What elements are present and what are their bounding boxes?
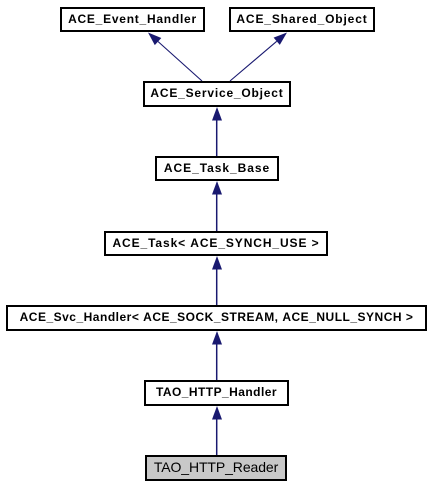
node ACE_Svc_Handler< ACE_SOCK_STREAM, ACE_NULL_SYNCH > <box>6 305 427 331</box>
node ACE_Task_Base <box>155 156 279 181</box>
wire arrow ACE_Service_Object to ACE_Shared_Object <box>230 33 287 82</box>
wire arrow TAO_HTTP_Reader to TAO_HTTP_Handler <box>212 406 222 455</box>
wire arrow TAO_HTTP_Handler to ACE_Svc_Handler <box>212 331 222 380</box>
wire arrow ACE_Task to ACE_Task_Base <box>212 181 222 231</box>
wire arrow ACE_Svc_Handler to ACE_Task <box>212 256 222 305</box>
node TAO_HTTP_Reader (current class, grey) <box>145 455 287 481</box>
node ACE_Task< ACE_SYNCH_USE > <box>104 231 328 256</box>
node ACE_Service_Object <box>143 81 291 107</box>
node ACE_Shared_Object <box>229 7 375 32</box>
wire arrow ACE_Service_Object to ACE_Event_Handler <box>148 33 202 82</box>
wire arrow ACE_Task_Base to ACE_Service_Object <box>212 107 222 156</box>
node ACE_Event_Handler <box>60 7 205 32</box>
node TAO_HTTP_Handler <box>144 380 289 406</box>
